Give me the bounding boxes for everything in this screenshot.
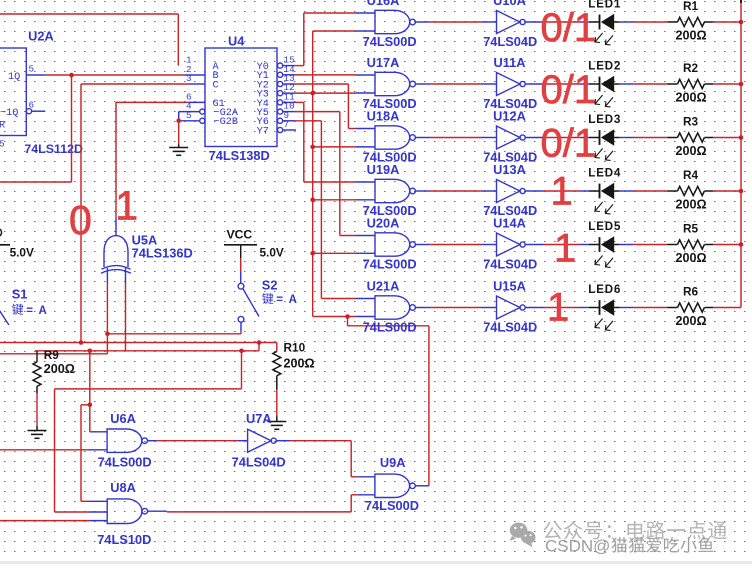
ground under R10	[267, 422, 286, 430]
node rail A junction x81	[79, 340, 84, 345]
switch S1 key=A (mostly off-canvas)	[0, 287, 48, 326]
LED1 diode	[588, 0, 621, 45]
svg-text:74LS00D: 74LS00D	[98, 455, 152, 470]
wire branch to U8A input 1	[81, 405, 107, 502]
svg-text:U9A: U9A	[380, 455, 406, 470]
svg-text:~G2B: ~G2B	[214, 117, 238, 128]
inverter U15A 74LS04D	[483, 279, 543, 335]
wire LED1 to R1	[619, 21, 668, 23]
svg-text:0/1: 0/1	[541, 68, 597, 112]
node bus junction row5	[739, 242, 744, 247]
NAND gate U8A 74LS10D 3-input	[97, 480, 167, 547]
svg-text:LED4: LED4	[588, 167, 621, 179]
wire LED3 to R3	[619, 137, 668, 139]
node junction at U2A output	[69, 73, 74, 78]
wire R2 to bus	[713, 83, 741, 85]
wire bus to U19A.in2	[313, 199, 375, 201]
wire U1 clock from left edge to U4.A	[0, 14, 178, 66]
resistor R10 200ohm	[273, 341, 315, 390]
node bus junction row1	[739, 20, 744, 25]
svg-text:74LS04D: 74LS04D	[483, 34, 537, 49]
big red state label 1	[115, 183, 138, 229]
wire bus to U18A.in2	[313, 146, 375, 148]
svg-text:74LS04D: 74LS04D	[232, 455, 286, 470]
wire Y4 to U19A.in1	[283, 102, 375, 182]
svg-text:LED5: LED5	[588, 221, 621, 233]
wire U7A out to U9A input 1	[291, 441, 375, 477]
wire R4 to bus	[713, 190, 741, 192]
svg-text:74LS00D: 74LS00D	[363, 34, 417, 49]
wire R10 to ground	[276, 390, 278, 422]
svg-text:0/1: 0/1	[541, 122, 597, 166]
wire S1 line to XOR left input	[0, 353, 107, 355]
node G2B junction	[176, 119, 181, 124]
resistor R2 200ohm	[668, 61, 714, 105]
red state label 0/1 row3	[541, 122, 597, 166]
inverter U7A 74LS04D	[232, 411, 291, 470]
svg-text:S1: S1	[12, 287, 28, 302]
watermark line1 gongzhonghao	[544, 521, 727, 540]
node bus junction row3	[739, 135, 744, 140]
svg-text:200Ω: 200Ω	[675, 144, 706, 158]
svg-text:R1: R1	[683, 0, 699, 13]
U4 G2A G2B input bubbles	[200, 109, 205, 123]
svg-text:1: 1	[115, 183, 138, 229]
red state label 1 row6	[547, 286, 569, 330]
U4 output bubbles Y0-Y7	[278, 63, 283, 133]
wire Y1 to U17A.in1	[283, 74, 375, 76]
wire U18A to U12A	[429, 137, 497, 139]
svg-text:200Ω: 200Ω	[675, 314, 706, 328]
wire U14A to LED5	[543, 244, 589, 246]
U2A pin 5 (1Q) stub	[26, 74, 45, 76]
resistor R3 200ohm	[668, 114, 714, 158]
LED6 diode	[588, 284, 621, 331]
svg-text:U13A: U13A	[493, 162, 526, 177]
watermark line2 CSDN	[545, 536, 713, 555]
resistor R9 200ohm	[33, 348, 75, 393]
VCC symbol for S1 (clipped at left)	[0, 229, 34, 260]
svg-text:~1Q: ~1Q	[0, 108, 18, 119]
svg-text:0/1: 0/1	[541, 6, 597, 50]
LED2 diode	[588, 60, 621, 107]
node bus dot row3	[310, 145, 315, 150]
red state label 0/1 row2	[541, 68, 597, 112]
svg-text:200Ω: 200Ω	[675, 28, 706, 42]
inverter U13A 74LS04D	[483, 162, 543, 218]
wire LED2 to R2	[619, 83, 668, 85]
wire U16A to U10A	[429, 21, 497, 23]
LED3 diode	[588, 114, 621, 160]
node bus junction row4	[739, 189, 744, 194]
wire Y5 to U20A.in1	[283, 112, 375, 236]
inverter U12A 74LS04D	[483, 109, 543, 165]
node U9A net junction row6	[345, 314, 350, 319]
wire S2 to XOR input	[107, 322, 241, 334]
wire left edge to U6A input 2	[0, 449, 107, 451]
svg-text:= A: = A	[276, 294, 298, 306]
resistor R4 200ohm	[668, 168, 714, 212]
XOR gate U5A 74LS136D vertical	[101, 233, 193, 274]
svg-text:R5: R5	[683, 221, 699, 235]
wire U21A to U15A	[429, 307, 497, 309]
svg-text:U20A: U20A	[367, 216, 400, 231]
svg-text:74LS136D: 74LS136D	[132, 246, 193, 261]
svg-text:U10A: U10A	[493, 0, 526, 8]
wire R1 to bus	[713, 21, 741, 23]
wire Y3 row to U17A.in2	[283, 92, 375, 94]
NAND gate U16A 74LS00D	[363, 0, 429, 49]
wire U2A.1Q to U4.B	[45, 74, 205, 76]
node rail B junction x241.5	[239, 349, 244, 354]
wire Y0 to U16A.in1	[283, 13, 375, 66]
wire U4.C riser x81	[81, 84, 205, 343]
svg-text:U18A: U18A	[367, 109, 400, 124]
svg-text:U7A: U7A	[246, 411, 272, 426]
wire U8A out to U9A input 2	[167, 495, 375, 512]
wire bus to U21A.in2	[313, 316, 375, 318]
svg-text:200Ω: 200Ω	[44, 362, 75, 376]
wire U13A to LED4	[543, 190, 589, 192]
svg-text:R9: R9	[44, 348, 60, 362]
svg-text:74LS112D: 74LS112D	[24, 142, 83, 156]
svg-text:5: 5	[29, 64, 35, 75]
wire U6A out to U7A in	[157, 440, 248, 442]
svg-text:U2A: U2A	[28, 29, 54, 44]
svg-text:Y7: Y7	[257, 126, 269, 137]
svg-text:CSDN@: CSDN@	[545, 536, 610, 555]
svg-text:U16A: U16A	[367, 0, 400, 8]
wire rail A y342 to R10	[0, 342, 277, 344]
svg-text:R2: R2	[683, 61, 699, 75]
svg-text:5.0V: 5.0V	[260, 246, 284, 260]
svg-text:5.0V: 5.0V	[10, 246, 34, 260]
watermark wechat icon	[510, 523, 536, 548]
LED4 diode	[588, 167, 621, 214]
svg-text:R10: R10	[284, 341, 306, 355]
wire right bus vertical	[740, 0, 742, 308]
inverter U14A 74LS04D	[483, 216, 543, 272]
wire R5 to bus	[713, 244, 741, 246]
wire U9A out up to row6 net	[348, 317, 429, 486]
svg-text:74LS00D: 74LS00D	[365, 498, 419, 513]
wire U20A to U14A	[429, 244, 497, 246]
wire U5A input right column x125	[125, 268, 127, 351]
svg-text:LED6: LED6	[588, 284, 621, 296]
wire U19A to U13A	[429, 190, 497, 192]
svg-text:74LS00D: 74LS00D	[363, 257, 417, 272]
LED5 diode	[588, 221, 621, 268]
node bus dot row4	[310, 198, 315, 203]
wire U15A to LED6	[543, 307, 589, 309]
svg-text:0: 0	[69, 197, 92, 243]
svg-text:U11A: U11A	[493, 55, 525, 70]
svg-text:U19A: U19A	[367, 162, 400, 177]
wire U5A output to U4.G1	[116, 102, 205, 235]
svg-text:R: R	[0, 121, 5, 132]
svg-text:= A: = A	[26, 305, 48, 317]
wire R3 to bus	[713, 137, 741, 139]
node rail A junction x259	[257, 340, 262, 345]
svg-text:U15A: U15A	[493, 279, 526, 294]
wire in2 bus column x312.7	[313, 31, 375, 317]
wire R9 to ground	[36, 393, 38, 431]
svg-text:U8A: U8A	[110, 480, 136, 495]
svg-text:3: 3	[186, 73, 192, 84]
svg-text:1: 1	[547, 286, 569, 330]
wire rail B riser to U6A input 1	[90, 351, 107, 432]
wire U10A to LED1	[543, 21, 589, 23]
wire LED5 to R5	[619, 244, 668, 246]
red state label 0/1 row1	[541, 6, 597, 50]
svg-text:S2: S2	[262, 277, 278, 292]
wire G2A G2B tie	[179, 112, 200, 121]
ground under R9	[28, 431, 47, 439]
node bus junction row2	[739, 82, 744, 87]
resistor R1 200ohm	[668, 0, 714, 42]
flip-flop U2A (74LS112D, partially off-canvas)	[0, 29, 83, 157]
wire U17A to U11A	[429, 83, 497, 85]
VCC symbol for S2	[224, 228, 284, 260]
wire LED4 to R4	[619, 190, 668, 192]
svg-text:200Ω: 200Ω	[284, 357, 315, 371]
NAND gate U6A 74LS00D	[98, 411, 157, 470]
svg-text:R6: R6	[683, 284, 699, 298]
wire Y2 to U18A.in1	[283, 84, 375, 129]
wire rail B y351	[35, 343, 259, 351]
big red state label 0	[69, 197, 92, 243]
node branch junction x89.8 y404.8	[88, 403, 93, 408]
svg-text:200Ω: 200Ω	[675, 197, 706, 211]
svg-text:5: 5	[0, 139, 5, 150]
svg-text:200Ω: 200Ω	[675, 251, 706, 265]
svg-text:C: C	[213, 80, 219, 91]
wire U12A to LED3	[543, 137, 589, 139]
NAND gate U17A 74LS00D	[363, 55, 429, 111]
svg-text:1Q: 1Q	[8, 72, 20, 83]
bottom page strip	[0, 561, 752, 564]
svg-text:U17A: U17A	[367, 55, 400, 70]
svg-text:74LS04D: 74LS04D	[483, 320, 537, 335]
wire Y6 to U21A.in1	[283, 121, 375, 299]
svg-text:74LS10D: 74LS10D	[97, 532, 151, 547]
svg-text:74LS00D: 74LS00D	[363, 320, 417, 335]
svg-text:74LS138D: 74LS138D	[209, 148, 270, 163]
svg-text:R4: R4	[683, 168, 699, 182]
resistor R6 200ohm	[668, 284, 714, 328]
node bus dot row5	[310, 251, 315, 256]
svg-text:74LS04D: 74LS04D	[483, 257, 537, 272]
node S2 wire junction on x107	[105, 332, 110, 337]
wire R6 to bus	[713, 307, 741, 309]
wire bus to U20A.in2	[313, 252, 375, 254]
wire G2 to ground	[178, 121, 180, 148]
red state label 1 row5	[554, 227, 576, 271]
NAND gate U18A 74LS00D	[363, 109, 429, 165]
svg-text:U14A: U14A	[493, 216, 526, 231]
svg-text:200Ω: 200Ω	[675, 90, 706, 104]
NAND gate U19A 74LS00D	[363, 162, 429, 218]
wire junction down to y182 exiting left	[0, 75, 72, 182]
U2A pin 6 (~1Q) stub with bubble	[26, 109, 45, 114]
svg-text:VCC: VCC	[227, 228, 253, 242]
NAND gate U21A 74LS00D	[363, 279, 429, 335]
NAND gate U9A 74LS00D	[365, 455, 429, 513]
svg-text:U6A: U6A	[110, 411, 136, 426]
wire U5A input left column x107	[106, 268, 108, 354]
wire VCC to S2	[240, 245, 242, 283]
decoder U4 74LS138D	[186, 34, 295, 164]
svg-text:1: 1	[551, 170, 573, 214]
svg-text:U21A: U21A	[367, 279, 400, 294]
switch S2 key=A	[238, 277, 298, 322]
svg-text:R3: R3	[683, 114, 699, 128]
wire left edge to U8A input 3	[0, 520, 107, 522]
svg-text:U12A: U12A	[493, 109, 526, 124]
svg-text:U4: U4	[228, 34, 245, 49]
svg-text:1: 1	[554, 227, 576, 271]
inverter U11A 74LS04D	[483, 55, 543, 111]
node rail B junction x89.8	[88, 349, 93, 354]
inverter U10A 74LS04D	[483, 0, 543, 49]
NAND gate U20A 74LS00D	[363, 216, 429, 272]
node bus dot Y3 row	[310, 91, 315, 96]
wire Y7 stub unconnected	[283, 129, 296, 131]
wire rail B x241.5 jog to U8A input 2	[55, 351, 242, 512]
ground for U4 G2 pins	[169, 148, 188, 156]
wire U11A to LED2	[543, 83, 589, 85]
wire LED6 to R6	[619, 307, 668, 309]
red state label 1 row4	[551, 170, 573, 214]
resistor R5 200ohm	[668, 221, 714, 265]
